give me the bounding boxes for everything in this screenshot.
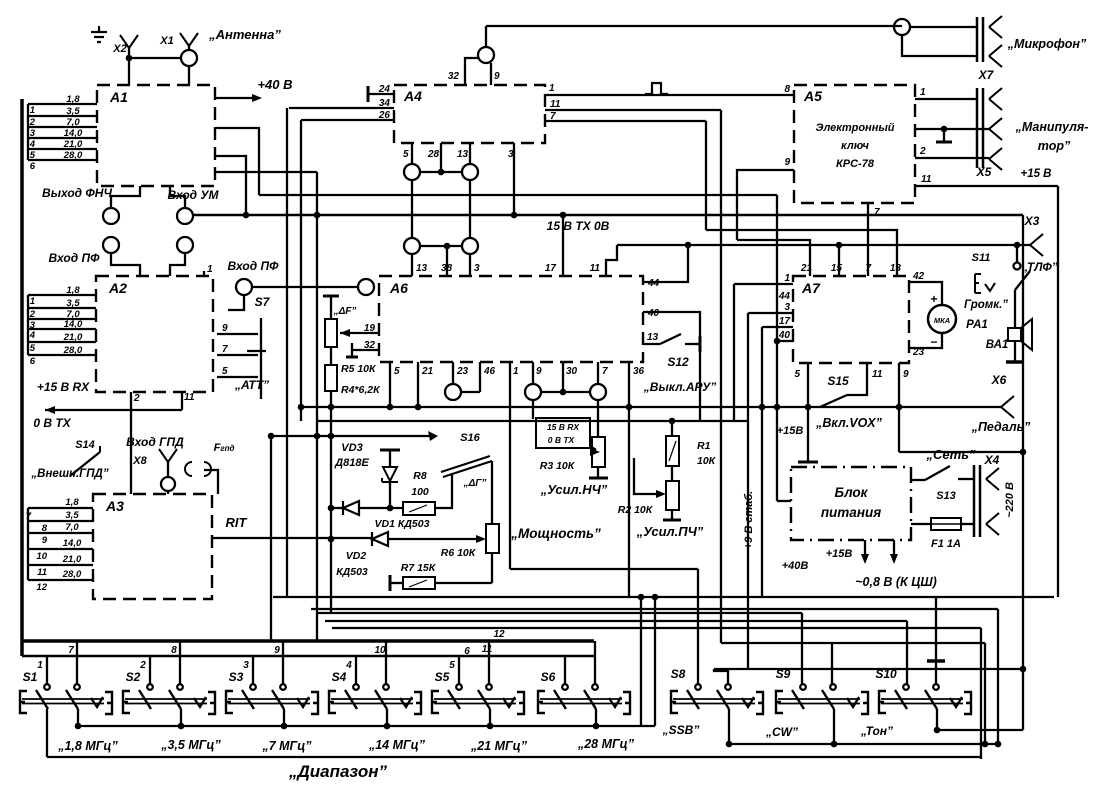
wire R3 top [597,400,599,437]
terminal bar PSU top [798,461,818,464]
svg-text:РА1: РА1 [966,319,988,331]
svg-text:A7: A7 [801,280,821,296]
svg-text:„Внешн.ГПД”: „Внешн.ГПД” [30,468,108,480]
wire S16 to R6 [491,461,493,524]
svg-text:21: 21 [800,263,813,274]
svg-text:X6: X6 [991,373,1007,387]
svg-text:7: 7 [68,645,74,656]
main left bus wire [20,99,24,656]
band switch S2 [123,670,215,714]
label R1 10K [697,455,717,467]
stub pin 9 S7 [217,323,258,334]
chain wire S4 [384,709,391,729]
svg-text:1,8: 1,8 [65,497,79,508]
wire mic upper [910,26,977,28]
plus sign meter [930,292,937,306]
rail y421 [317,418,748,425]
jack bars X4 [974,465,980,537]
wire col 470 down [469,180,471,238]
bottom rail y757 [47,756,981,758]
svg-text:40: 40 [778,330,791,341]
wire pin26 left [301,119,394,121]
svg-text:5: 5 [449,660,455,671]
pin label 9 A5 [784,157,790,168]
contact TLF [1014,263,1021,270]
pin label 19 A6 [364,323,376,334]
wire A6 pin13 stub [643,332,660,344]
label VD1 KD503 [375,518,430,530]
label X4 [984,453,1000,467]
prong X5-3 [989,148,1002,170]
svg-text:42: 42 [912,271,925,282]
svg-text:11: 11 [872,369,883,380]
wire A6 pin32 [352,349,379,351]
label S7 [255,295,271,309]
switch S15 [820,395,847,407]
potentiometer R3 [592,437,605,467]
antenna X2 [120,35,138,58]
svg-text:11: 11 [550,99,561,110]
label 7 MHz [261,739,312,753]
wire A2 pin11 down [181,392,183,410]
svg-text:„Выкл.АРУ”: „Выкл.АРУ” [643,380,716,394]
svg-text:15 В ТХ 0В: 15 В ТХ 0В [547,219,610,233]
svg-text:1: 1 [37,660,43,671]
svg-text:32: 32 [364,340,376,351]
rail y621 [325,620,907,622]
wire R3 bottom [597,467,599,478]
svg-text:Громк.”: Громк.” [964,299,1008,311]
svg-text:„Антенна”: „Антенна” [208,27,281,42]
resistor R8 [403,502,435,515]
pin label 28 A4 [427,149,440,160]
prong X4-1 [986,468,999,490]
svg-text:МКА: МКА [934,316,950,325]
svg-text:1: 1 [207,264,213,275]
svg-text:0 В ТХ: 0 В ТХ [548,435,576,445]
label X6 [991,373,1007,387]
bus A1 vertical [27,104,29,160]
svg-text:17: 17 [779,316,791,327]
svg-text:44: 44 [647,278,660,289]
svg-text:„Усил.ПЧ”: „Усил.ПЧ” [636,524,704,539]
svg-text:44: 44 [778,291,791,302]
chain wire S2 [178,709,185,729]
wiper R2 feed [634,458,666,498]
wire A7 pin9 down [899,363,909,452]
zener VD3 [382,450,398,508]
svg-text:„21 МГц”: „21 МГц” [470,739,528,753]
terminal bar R7 [389,575,392,591]
block A1 [97,85,215,186]
band switch S1 [20,670,112,714]
svg-text:„14 МГц”: „14 МГц” [368,738,426,752]
svg-text:40: 40 [647,308,660,319]
svg-text:11: 11 [921,174,932,185]
wire A4 pin1 to A5 pin8 [545,94,794,96]
riser S8 right [714,669,728,685]
connector mic circle [894,19,910,35]
wire A6 pin36 down [629,362,645,597]
block A5 electronic key KPC-78 [794,85,915,203]
svg-text:Электронный: Электронный [816,122,895,134]
svg-text:28: 28 [427,149,440,160]
svg-text:7: 7 [602,366,608,377]
potentiometer R2 [666,481,679,510]
svg-text:3: 3 [474,263,480,274]
wire R1-R2 [671,466,673,481]
wire A4 pin11 right [545,109,721,111]
prong X6 pedal [1001,396,1014,418]
svg-text:„7 МГц”: „7 МГц” [261,739,312,753]
junction dots rail y215 [243,212,567,219]
block A3 [93,494,212,599]
label TLF [1021,260,1057,274]
wire A4 pin5 down [411,143,413,164]
connector A6-3 top [462,238,478,254]
connector FNCh upper [103,208,119,224]
link A4 connectors [420,169,462,176]
label +15V top right [1020,168,1051,180]
label R6 10K [441,547,477,559]
diode VD1 [328,501,403,515]
long vertical x301 [300,120,302,407]
label S16 [460,432,480,444]
junction RIT x331 [328,536,335,543]
label Vkhod UM [167,188,219,202]
label 21 MHz [470,739,528,753]
wire S1 arm to bottom [46,709,48,757]
svg-text:21,0: 21,0 [62,554,82,565]
label Gromk [964,299,1008,311]
svg-text:3: 3 [784,302,790,313]
bus A1 band taps 1-6 [28,94,97,172]
wire A7 pin23 [909,333,942,358]
svg-text:23: 23 [912,347,925,358]
svg-text:6: 6 [30,356,36,367]
label R8 [413,470,427,482]
wire R5 top [330,296,332,319]
svg-text:5: 5 [403,149,409,160]
pin label 34 [379,98,391,109]
wire X8 into A3 [167,491,169,494]
wire speaker down [1014,341,1016,361]
svg-text:S4: S4 [332,670,347,684]
wire A5 pin9 left-down [737,170,794,240]
label R3 10K [540,460,576,472]
wire fuse [911,523,931,525]
svg-text:ВА1: ВА1 [986,339,1009,351]
wire A1 pin to y215 [215,156,246,215]
label Vneshn GPD [30,468,108,480]
label F1 1A [931,538,961,550]
svg-text:R1: R1 [697,440,711,452]
svg-text:9: 9 [274,645,280,656]
main rail y407 [301,406,1001,408]
svg-text:8: 8 [784,84,790,95]
svg-text:100: 100 [411,486,429,498]
svg-text:КД503: КД503 [336,566,368,578]
pin label 13 A4 [457,149,469,160]
antenna X8 [159,449,177,477]
svg-text:Вход ПФ: Вход ПФ [49,251,101,265]
bus A3 vertical [27,508,29,580]
vertical x655 chain [654,597,656,726]
block A6 [379,276,643,362]
svg-text:1: 1 [30,105,35,116]
svg-text:28,0: 28,0 [62,569,82,580]
label VD2 [346,550,367,562]
label KD503 [336,566,368,578]
svg-text:28,0: 28,0 [63,345,83,356]
connector A4 top [478,47,494,63]
svg-text:13: 13 [647,332,659,343]
label Antenna [208,27,281,42]
wire A6 pin11 up [606,245,617,276]
pin label 1 A2 [207,264,213,275]
svg-text:3,5: 3,5 [65,510,79,521]
svg-text:„ΔГ”: „ΔГ” [463,478,487,489]
prong X3 [1030,234,1043,256]
riser S9 right [831,643,833,685]
wire R2 bottom [671,510,673,519]
wire A5 mid to X5 [915,126,989,133]
connector A6-7 [590,384,606,400]
label Vykl ARU [643,380,716,394]
svg-text:питания: питания [821,505,881,520]
wire X2 to X1 [126,55,181,62]
svg-text:+15 В: +15 В [1020,168,1051,180]
svg-text:+40В: +40В [782,560,809,572]
connector A6-23 [445,384,461,400]
meter PA1 [928,305,956,333]
mode switch S8 [671,667,763,714]
junction dots y407 [298,404,903,411]
label 100 [411,486,429,498]
pin number 8 [171,645,177,656]
pin label 32 A6 [364,340,376,351]
stub wires S4 [356,641,386,684]
svg-text:12: 12 [36,582,47,593]
label 3.5 MHz [160,738,221,752]
junction zener [387,505,394,512]
vertical x762 [759,327,766,597]
wire S15 to pin11 [847,364,867,395]
label X8 [132,455,147,467]
stub pin 5 S7 [217,366,258,377]
svg-text:„SSB”: „SSB” [662,723,700,737]
label dG [463,478,487,489]
wire R8 to S16 [435,473,452,508]
label Vykhod FNCh [42,186,112,200]
svg-text:„ТЛФ”: „ТЛФ” [1021,260,1057,274]
band switch S5 [432,670,524,714]
svg-text:3,5: 3,5 [66,106,80,117]
vertical x706 A4pin7 [705,121,707,230]
label Mikrofon [1007,37,1087,51]
wire A7 pin5 down [794,363,808,462]
svg-text:„Микрофон”: „Микрофон” [1007,37,1087,51]
connector X1 circle [181,50,197,66]
svg-text:3,5: 3,5 [66,298,80,309]
svg-text:7,0: 7,0 [65,522,79,533]
label X3 [1024,214,1040,228]
wire A7 pin40 [774,330,793,344]
svg-text:X3: X3 [1024,214,1040,228]
pin label 13 A7 [890,263,902,274]
label Vkhod PF [228,259,280,273]
svg-text:VD1 КД503: VD1 КД503 [375,518,430,530]
wire R6 bottom [491,553,493,583]
svg-text:Вход ГПД: Вход ГПД [126,435,184,449]
svg-text:R7 15К: R7 15К [401,562,437,574]
pin label 8 A5 [784,84,790,95]
svg-text:7: 7 [874,207,880,218]
rail y656 [22,655,594,658]
wire mic lower [902,35,977,56]
svg-text:3: 3 [243,660,249,671]
pin label 26 [378,110,391,121]
svg-text:ключ: ключ [841,140,870,152]
label 28 MHz [577,737,635,751]
label Usil PCh [636,524,704,539]
svg-text:Д818Е: Д818Е [334,457,369,469]
bus A2 band taps 1-6 [28,285,96,367]
band switch S3 [226,670,318,714]
arrow S16 contact [428,431,438,441]
wire PF to A6 [252,286,358,288]
svg-text:A6: A6 [389,280,408,296]
wire pin34 left [289,107,394,109]
label X7 [978,68,995,82]
pin number 1 S1 [37,660,43,671]
connector X8 [161,477,175,491]
pin label 11 A6 [590,263,601,274]
ground X2 [91,26,107,42]
wire A7 pin42 [909,271,942,305]
wire RX arrow [45,406,182,414]
long vertical right x1058 [1057,186,1059,597]
connector A6-9 [525,384,541,400]
pin label 3 A4 [508,149,514,160]
pin number 5 S5 [449,660,455,671]
wire A1 pin to rail y195 [215,128,259,195]
svg-text:9: 9 [903,369,909,380]
vertical x1023 pedal return [1020,215,1027,730]
pin number 10 [374,645,386,656]
svg-text:R4*6,2К: R4*6,2К [341,384,381,396]
bus A3 band taps 7-12 [26,497,93,593]
mic rail y26 [486,25,902,27]
pin label 13 A6 [416,263,428,274]
label Pedal [971,420,1031,434]
label R4 6,2K [341,384,381,396]
svg-text:19: 19 [364,323,376,334]
wire A2 pin1 up [203,271,205,276]
wire X2 into A1 [128,58,130,85]
stub wires S2 [150,641,180,684]
thick rail y641 [22,639,594,643]
label 1.8 MHz [57,739,118,753]
hook below PF connector [228,295,244,310]
wire A7 pin17 [762,316,793,327]
wire A4 pin32 up [465,58,478,85]
svg-text:38: 38 [441,263,453,274]
pin label 2 A5 [919,146,926,157]
connector A4-5 [404,164,420,180]
svg-text:Выход ФНЧ: Выход ФНЧ [42,186,112,200]
connector UM upper [177,208,193,224]
label 220V [1004,482,1016,518]
rail y613 [318,612,802,614]
label R2 10K [618,504,654,516]
svg-text:2: 2 [919,146,926,157]
wire A6 pin23 down [453,362,469,384]
wire RIT from A3 [212,537,371,539]
chain wire S3 [281,709,288,729]
stub wires S1 [47,641,77,684]
svg-text:~220 В: ~220 В [1004,482,1016,518]
svg-text:X4: X4 [984,453,1000,467]
label +15V psu [826,548,853,560]
wire A5 pin11 right [915,185,1058,187]
label 15V TX 0V [547,219,610,233]
svg-text:1: 1 [784,273,790,284]
svg-text:34: 34 [379,98,391,109]
box 15V RX 0V TX [536,418,590,448]
svg-text:2: 2 [133,393,140,404]
label BA1 [986,339,1009,351]
svg-text:„3,5 МГц”: „3,5 МГц” [160,738,221,752]
svg-text:14,0: 14,0 [64,319,83,330]
svg-text:7,0: 7,0 [66,117,80,128]
wire UM rail y215 [193,214,1023,217]
junction x271 S16 rail [268,433,275,440]
label Vkl VOX [815,416,883,430]
connector Fgpd [185,462,211,476]
wire A1 out FNCh [111,186,140,208]
svg-text:S5: S5 [435,670,450,684]
volume symbol S11 [975,274,995,293]
junction TLF [1014,242,1021,249]
rail y628 [332,627,981,629]
band switch S4 [329,670,421,714]
svg-text:A4: A4 [403,88,422,104]
svg-text:5: 5 [222,366,228,377]
block A4 [394,85,545,143]
svg-text:1: 1 [513,366,519,377]
prong X7-1 [989,16,1002,38]
label Moshchnost [510,526,601,541]
label X5 [976,165,992,179]
connector PF A6 [358,279,374,295]
svg-text:15: 15 [831,263,843,274]
svg-text:„Мощность”: „Мощность” [510,526,601,541]
wire A4 pin3 down [513,143,515,215]
wire connector9 down [532,400,534,419]
svg-text:+15 В RX: +15 В RX [37,380,90,394]
chain wire S6 [593,709,600,729]
label S11 [972,252,991,264]
pin label 24 [378,84,391,95]
label 14 MHz [368,738,426,752]
antenna X1 [180,33,198,50]
terminal bar VD3 [380,449,400,452]
S16 top rail [271,433,430,440]
mode switch S9 [776,667,868,714]
riser S9 left [801,613,803,685]
svg-text:Вход ПФ: Вход ПФ [228,259,280,273]
